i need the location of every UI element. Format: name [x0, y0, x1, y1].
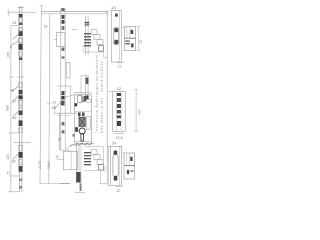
svg-text:880: 880 — [5, 105, 9, 111]
detail A slot bottom dark — [114, 40, 118, 44]
detail B dash 2 — [117, 98, 121, 102]
ladder top row 3 — [84, 39, 91, 40]
case right tall rect — [86, 117, 90, 130]
edge link tick — [72, 29, 78, 31]
left rail guide 7 — [19, 128, 23, 132]
left rail guide 6 — [19, 107, 23, 111]
flat case left edge — [59, 113, 61, 150]
center flat rail left edge — [60, 9, 62, 151]
left rail bolt block 5 — [19, 95, 23, 99]
detail C inner line — [119, 146, 121, 185]
left rail guide 2 — [19, 28, 23, 32]
left rail dark dash pair — [19, 23, 23, 25]
left rail top cap — [18, 6, 24, 8]
left rail bolt block 8 — [19, 152, 23, 158]
svg-text:12: 12 — [117, 86, 122, 91]
long dim line 1 cap — [40, 5, 43, 7]
ladder top frame left part — [82, 45, 84, 52]
center rail top cap — [61, 8, 64, 11]
svg-text:30: 30 — [58, 138, 62, 142]
detail A box1 dot — [131, 30, 134, 34]
detail B right dim tick bot — [134, 130, 138, 132]
ladder bottom row 2 — [84, 155, 91, 156]
svg-text:165: 165 — [7, 52, 11, 58]
left rail pin dark — [19, 57, 23, 60]
left rail guide 4 — [19, 83, 23, 88]
detail B left tick — [108, 90, 113, 92]
mid band tick — [75, 111, 92, 113]
left rail bolt block 4 — [19, 90, 23, 95]
edge rail lower segment left — [85, 76, 87, 95]
left rail bolt block 7 — [19, 120, 23, 126]
left rail bolt block 9 — [19, 166, 23, 172]
mid band square 2 — [82, 112, 85, 116]
bottom tick under rail — [75, 192, 85, 194]
case pre-top line — [74, 92, 91, 94]
center rail blob 2 — [61, 96, 64, 99]
case leader diagonal — [64, 95, 75, 98]
detail A box2 dash 2 — [125, 43, 130, 44]
ladder top step 3 — [97, 40, 103, 45]
long dim line 2 — [49, 14, 50, 184]
left rail foot mark — [19, 186, 22, 189]
flat case top line — [54, 112, 77, 114]
svg-text:12: 12 — [116, 189, 120, 193]
left rail bolt block 1 — [19, 14, 23, 17]
left rail mid tick — [17, 76, 24, 78]
flat case top line 2 — [58, 114, 71, 116]
detail B dash 6 — [117, 121, 121, 126]
below case tick right — [84, 144, 88, 146]
latch cluster rect 1 — [78, 96, 82, 103]
bottom left short tick — [60, 183, 70, 185]
ladder bottom frame top — [85, 145, 104, 147]
svg-text:65: 65 — [44, 24, 48, 28]
cylinder profile tail — [81, 134, 84, 141]
detail A box1 — [124, 27, 135, 38]
ladder top end block — [99, 46, 104, 52]
follower square — [79, 118, 85, 127]
center rail blob 3 — [61, 101, 65, 106]
ladder top frame bottom — [83, 51, 103, 53]
flat case bottom — [60, 149, 71, 151]
case left dark dot 1 — [74, 103, 77, 106]
keep rect tick — [57, 158, 64, 160]
detail C top line — [110, 145, 122, 147]
top datum line lower — [41, 13, 107, 15]
left rail bolt block 3 — [19, 44, 23, 50]
case left small mark — [72, 134, 74, 137]
left rail guide 3 — [19, 52, 23, 56]
center rail blob 1 — [62, 91, 65, 95]
left rail guide 8 — [19, 145, 23, 151]
detail B inner line 1 — [116, 91, 118, 131]
svg-text:ø3: ø3 — [12, 100, 16, 104]
detail B inner line 2 — [120, 91, 122, 131]
mid tick over dim2 — [46, 102, 51, 104]
left dim tick y25 — [11, 25, 19, 27]
detail A top screw — [115, 14, 118, 17]
svg-text:1060: 1060 — [47, 161, 51, 169]
edge rail lower mid line — [80, 143, 82, 191]
center side box right — [66, 63, 70, 79]
center cross line y86 — [57, 85, 71, 87]
detail B dash 5 — [117, 115, 121, 118]
edge rail lower right line — [78, 143, 80, 184]
left rail right edge — [21, 7, 23, 192]
edge rail left line — [85, 16, 87, 55]
ladder bottom row 3 — [84, 158, 91, 159]
ladder top row 5 — [84, 45, 91, 46]
ladder bottom right edge — [102, 146, 104, 170]
right dim top arrow — [106, 11, 108, 16]
latch dark dash — [84, 96, 86, 101]
svg-text:22,5: 22,5 — [116, 136, 123, 140]
svg-text:ø5: ø5 — [12, 116, 16, 120]
follower cross 1 — [79, 118, 84, 126]
case bottom inner line — [75, 141, 92, 143]
connector box tick — [54, 38, 56, 40]
ladder bottom frame bottom — [85, 169, 104, 171]
ladder bottom end block — [99, 165, 104, 170]
bottom keep rect — [63, 151, 77, 169]
svg-text:Alle Maße in mm · Stand 04/201: Alle Maße in mm · Stand 04/2012 — [100, 61, 104, 133]
detail B dash 3 — [117, 104, 121, 108]
ladder bottom step 3 — [97, 160, 103, 165]
edge rail top tick 2 — [85, 24, 90, 25]
svg-text:180: 180 — [137, 109, 141, 115]
svg-text:21: 21 — [12, 20, 17, 25]
detail A box1 inner line 2 — [129, 27, 131, 38]
detail B dash 1 — [117, 93, 121, 96]
follower cross 2 — [79, 118, 84, 126]
detail B bottom tick — [114, 133, 124, 135]
edge rail upper blob — [86, 78, 89, 84]
left rail bolt block 6 — [19, 111, 23, 115]
leader to bolt 2 — [13, 34, 19, 40]
center drop line x70 — [70, 86, 72, 113]
left rail guide 1 — [19, 18, 23, 22]
detail A right dim tick bot — [137, 50, 141, 52]
detail A bottom tick — [117, 62, 124, 64]
leader to roller 1 — [11, 41, 18, 46]
ladder top row 4 — [84, 42, 91, 43]
section line across rail — [14, 142, 31, 144]
edge rail top tick 1 — [85, 22, 90, 24]
center flat rail right edge — [64, 9, 66, 151]
ladder bottom drop line — [99, 170, 101, 183]
center rail tick y57 — [62, 56, 65, 59]
ladder bottom row 1 — [84, 152, 91, 153]
detail C link line — [122, 151, 124, 153]
case left dark dot 2 — [75, 127, 78, 132]
edge rail foot tip — [80, 183, 82, 191]
edge rail lower left line — [76, 143, 78, 184]
left rail lower pin — [19, 179, 22, 181]
left dim tick y77 — [9, 76, 14, 78]
detail C left dim — [108, 147, 110, 186]
flat case inner dot2 — [62, 130, 65, 133]
center rail slot 1 — [62, 26, 65, 30]
center rail screw 2 — [62, 20, 65, 24]
detail C box1 dot — [130, 157, 132, 161]
ladder bottom row 4 — [84, 161, 91, 162]
below case tick left — [74, 144, 78, 146]
mid band square 1 — [78, 112, 81, 116]
leader to bolt 5 — [13, 96, 18, 101]
detail C left dim tick top — [107, 146, 111, 148]
bottom datum line right part — [100, 183, 108, 185]
svg-text:2170: 2170 — [38, 161, 42, 169]
detail C box1 inner line 1 — [126, 153, 128, 165]
center connector box — [57, 33, 65, 47]
flat case inner marks — [62, 122, 65, 125]
left rail roller 1 — [19, 38, 23, 43]
detail C box1 — [124, 153, 135, 165]
mid label drop line — [54, 104, 56, 113]
latch right marks — [86, 100, 91, 103]
svg-text:ø5: ø5 — [12, 160, 16, 164]
lock case outline — [75, 95, 92, 143]
left rail guide 5 — [19, 100, 23, 105]
svg-text:Technische Änderungen vorbehal: Technische Änderungen vorbehalten! — [95, 54, 99, 133]
main right dim line — [106, 11, 108, 184]
long dim line 1 — [40, 6, 41, 184]
svg-text:400: 400 — [6, 154, 10, 160]
left dim tick y133 — [9, 132, 20, 134]
ladder top step 1 — [91, 30, 97, 35]
detail C box2 dot — [127, 170, 129, 174]
svg-text:30: 30 — [139, 40, 143, 44]
detail C bottom tick — [115, 186, 122, 188]
latch cluster rect 2 — [82, 96, 85, 102]
detail C left dim tick bot — [107, 184, 111, 186]
svg-text:30: 30 — [55, 155, 59, 159]
ladder top row 2 — [84, 36, 91, 37]
edge rail foot dark — [76, 172, 80, 182]
center rail screw 1 — [62, 15, 65, 19]
keep leader diagonal — [66, 145, 71, 149]
top datum left end tick — [7, 10, 9, 17]
detail A slot outline — [114, 27, 119, 45]
leader to bolt 6 — [13, 112, 19, 117]
ladder connector horizontal — [103, 56, 107, 58]
detail B dash 4 — [117, 110, 121, 114]
left rail left edge — [18, 7, 20, 192]
detail A right dim — [138, 27, 140, 51]
leader to hub a — [12, 87, 18, 92]
detail A box2 dot — [131, 43, 134, 47]
detail A top line — [110, 10, 122, 12]
detail A box2 dash 1 — [125, 40, 130, 41]
svg-text:ø5: ø5 — [10, 89, 14, 93]
svg-text:12: 12 — [118, 65, 122, 69]
svg-text:170: 170 — [103, 166, 107, 172]
detail A box1 inner line 1 — [126, 27, 128, 38]
detail C box2 dash — [131, 170, 134, 171]
detail C box2 — [124, 166, 135, 179]
detail A right dim tick top — [137, 26, 141, 28]
ladder bottom step 2 — [94, 155, 100, 160]
svg-text:12: 12 — [52, 101, 56, 105]
detail C slot outline — [113, 155, 118, 177]
detail C outline — [111, 146, 122, 185]
leader to bolt 8 — [13, 154, 19, 160]
left dim chain vertical — [10, 26, 12, 193]
left dim tick y192 — [8, 191, 19, 193]
center rail dash y48 — [62, 48, 65, 51]
detail B right dim tick top — [134, 88, 138, 90]
detail A box2 — [124, 39, 135, 51]
ladder bottom row 5 — [84, 164, 91, 165]
top datum line left — [8, 11, 37, 13]
left rail guide 9 — [19, 160, 23, 165]
detail C top dark — [114, 151, 118, 155]
ladder connector vertical — [102, 52, 104, 57]
cylinder profile circle — [79, 128, 85, 134]
svg-text:24: 24 — [111, 5, 116, 10]
edge rail lower segment right — [87, 76, 89, 95]
edge rail right line — [87, 16, 89, 55]
edge rail resume tick — [81, 75, 89, 77]
top datum line upper — [41, 11, 107, 13]
ladder bottom step 1 — [91, 150, 97, 155]
svg-text:ø8: ø8 — [52, 106, 56, 110]
detail A link line — [121, 26, 124, 28]
case dark dot top — [86, 95, 88, 99]
svg-text:24: 24 — [112, 141, 117, 146]
detail A inner line — [118, 11, 120, 62]
detail B outline — [113, 91, 126, 131]
ladder top step 2 — [94, 35, 100, 40]
bottom datum line left part — [39, 183, 70, 185]
detail A slot top dark — [114, 28, 118, 32]
signature squiggle — [71, 143, 94, 146]
detail B right dim — [135, 89, 137, 131]
left dim tick y176 — [10, 175, 20, 177]
leader to center rail — [55, 101, 62, 109]
detail C slot bottom dark — [114, 176, 118, 181]
edge rail aux line — [80, 76, 82, 95]
keep rect inner line — [70, 151, 72, 169]
svg-text:55: 55 — [6, 171, 10, 175]
detail A plate outline — [112, 11, 122, 62]
detail C box1 inner line 2 — [129, 153, 131, 165]
ladder top row 1 — [84, 33, 91, 34]
left rail bolt block 2 — [19, 31, 23, 36]
